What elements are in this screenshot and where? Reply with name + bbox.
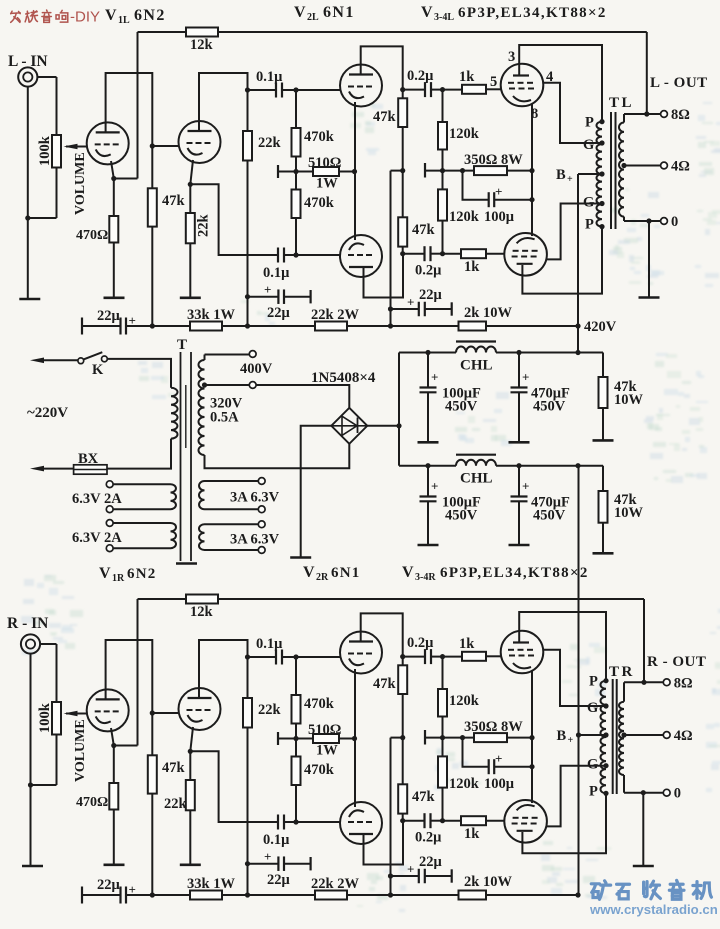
label R-IN: [7, 615, 48, 632]
triode V1Rb: [179, 688, 221, 730]
ground secondary R: [633, 865, 654, 868]
wire plate lower to P R: [522, 793, 606, 853]
svg-text:100μ: 100μ: [484, 209, 515, 225]
transformer T filament 3A 6.3V #2: [199, 521, 280, 554]
wire input ground line R: [28, 654, 57, 866]
capacitor 0.1u upper L: [248, 69, 341, 98]
svg-text:120k: 120k: [449, 693, 480, 709]
resistor 22k plate load R: [243, 657, 282, 898]
svg-text:3-4R: 3-4R: [415, 572, 436, 583]
capacitor 0.1u lower L: [263, 248, 341, 282]
svg-text:B: B: [556, 167, 566, 183]
label TL: [609, 95, 634, 111]
terminal 8ohm L: [661, 107, 690, 123]
svg-text:100k: 100k: [37, 702, 53, 733]
wire bus segment 1 R: [126, 894, 190, 896]
wire plate top to P L: [519, 45, 602, 122]
svg-text:33k 1W: 33k 1W: [187, 876, 235, 892]
wire screen upper to G L: [543, 83, 602, 143]
svg-text:P: P: [589, 674, 598, 690]
wire 400V tap: [205, 355, 250, 356]
label P bottom R: [589, 783, 598, 799]
svg-text:6.3V 2A: 6.3V 2A: [72, 530, 122, 546]
transformer T HV secondary: [199, 356, 208, 466]
wire filter output: [425, 463, 603, 468]
svg-text:0.2μ: 0.2μ: [415, 263, 442, 279]
svg-text:6P3P,EL34,KT88×2: 6P3P,EL34,KT88×2: [440, 565, 589, 581]
ground input R: [22, 865, 43, 868]
svg-text:470k: 470k: [304, 762, 335, 778]
wire filter input: [399, 352, 456, 354]
ground 470ohm L: [104, 296, 125, 299]
wire plate lower to P L: [522, 227, 602, 294]
watermark url: [589, 902, 718, 917]
capacitor 22u mid R: [248, 849, 311, 888]
svg-text:22k: 22k: [164, 796, 188, 812]
svg-text:+: +: [407, 862, 414, 877]
transformer T filament 6.3V 2A #1: [72, 481, 176, 513]
wire feedback drop R: [643, 599, 645, 682]
svg-text:22μ: 22μ: [419, 287, 443, 303]
resistor 120k upper L: [438, 90, 480, 174]
potentiometer 100k VOLUME L: [37, 77, 88, 218]
wire to bridge AC1: [256, 385, 349, 408]
ground 22k R: [180, 863, 201, 866]
resistor 1k lower L: [443, 249, 505, 275]
choke CHL: [456, 342, 496, 374]
resistor 22k 2W R: [311, 876, 359, 900]
svg-text:6N1: 6N1: [323, 4, 355, 21]
capacitor 22u right R: [391, 854, 452, 883]
resistor 47k plate load V1 L: [148, 188, 186, 328]
svg-text:100k: 100k: [37, 135, 53, 166]
capacitor 100uF 450V: [420, 353, 481, 443]
svg-text:+: +: [495, 751, 502, 766]
svg-text:+: +: [264, 849, 271, 864]
label V1R 6N2: [99, 565, 156, 584]
svg-text:10W: 10W: [614, 392, 644, 408]
wire screen lower to G R: [547, 766, 606, 827]
svg-text:+: +: [495, 184, 502, 199]
wire HV bottom to bridge AC2: [205, 444, 350, 469]
svg-text:10W: 10W: [614, 505, 644, 521]
wire V2Rb cathode: [354, 739, 356, 808]
svg-text:47k: 47k: [162, 760, 186, 776]
svg-text:L - IN: L - IN: [8, 53, 48, 70]
input jack R: [21, 634, 57, 653]
svg-text:0: 0: [671, 214, 678, 230]
triode V1Ra: [87, 689, 129, 731]
terminal 0 R: [663, 786, 681, 802]
svg-text:22k: 22k: [258, 135, 282, 151]
svg-text:2R: 2R: [316, 572, 329, 583]
resistor 120k lower R: [438, 738, 480, 821]
wire cathode out to lower 0.1u L: [190, 184, 278, 255]
terminal 4ohm R: [663, 728, 692, 744]
label P top R: [589, 674, 598, 690]
resistor 22k cathode R: [164, 780, 195, 865]
svg-text:4Ω: 4Ω: [671, 159, 690, 175]
svg-text:+: +: [568, 735, 574, 746]
resistor 510ohm 1W R: [278, 722, 357, 759]
wire 320V tap to bridge: [205, 384, 250, 386]
wire V1Ra cathode R: [111, 728, 116, 783]
svg-text:6P3P,EL34,KT88×2: 6P3P,EL34,KT88×2: [458, 5, 607, 21]
choke CHL: [456, 455, 496, 487]
core TL: [611, 112, 616, 229]
svg-text:3A 6.3V: 3A 6.3V: [230, 532, 280, 548]
pin labels output tubes: [490, 49, 553, 122]
svg-text:1W: 1W: [316, 743, 338, 759]
wire secondary ground R: [642, 793, 644, 866]
capacitor 100uF 450V: [420, 466, 481, 545]
resistor 22k plate load L: [243, 90, 282, 329]
triode V1Lb: [179, 121, 221, 163]
svg-text:47k: 47k: [373, 676, 397, 692]
label V2L 6N1: [294, 4, 355, 23]
resistor 470ohm cathode L: [76, 216, 118, 298]
output transformer TL primary: [597, 119, 605, 229]
terminal 4ohm L: [661, 159, 690, 175]
rectifier bridge 1N5408x4: [311, 370, 376, 444]
pentode V3L upper output: [501, 64, 544, 107]
wire bus segment 3 R: [347, 894, 459, 896]
svg-text:350Ω 8W: 350Ω 8W: [464, 719, 523, 735]
wire screen lower to G L: [547, 204, 602, 260]
svg-text:G: G: [587, 757, 598, 773]
wire 8ohm tap L: [624, 111, 661, 116]
svg-text:2L: 2L: [307, 12, 319, 23]
svg-text:33k 1W: 33k 1W: [187, 307, 235, 323]
svg-text:120k: 120k: [449, 776, 480, 792]
wire 4ohm tap L: [621, 163, 660, 168]
svg-text:+: +: [407, 295, 414, 310]
label P top L: [585, 115, 594, 131]
resistor 47k driver upper L: [373, 90, 407, 174]
resistor 2k 10W L: [459, 305, 513, 331]
wire V2Ra plate: [361, 613, 406, 659]
svg-text:2k 10W: 2k 10W: [464, 874, 512, 890]
svg-text:1k: 1k: [464, 259, 480, 275]
label B+ L: [556, 167, 573, 185]
capacitor 470uF 450V: [511, 466, 570, 545]
svg-text:L - OUT: L - OUT: [650, 75, 708, 91]
label V1L 6N2: [105, 7, 166, 26]
wire V1Lb plate to 0.1u node: [199, 73, 250, 131]
ground 100uF: [418, 441, 439, 444]
svg-text:G: G: [583, 137, 594, 153]
output transformer TR primary: [600, 678, 608, 796]
transformer T filament 6.3V 2A #2: [72, 520, 176, 552]
ground input L: [19, 298, 40, 301]
triode V2Rb: [340, 802, 382, 844]
resistor 22k cathode L: [186, 213, 212, 298]
svg-text:1k: 1k: [464, 826, 480, 842]
svg-text:V: V: [402, 564, 414, 581]
terminal 0 L: [661, 214, 679, 230]
fuse BX: [74, 451, 107, 474]
terminal 8ohm R: [663, 675, 692, 691]
svg-text:3A 6.3V: 3A 6.3V: [230, 490, 280, 506]
transformer T primary: [171, 388, 178, 439]
wire bus segment 3 L: [347, 325, 459, 327]
svg-text:V: V: [303, 564, 315, 581]
svg-text:P: P: [589, 783, 598, 799]
wire cathode column output tubes R: [531, 671, 533, 803]
wire input ground line L: [25, 87, 56, 299]
wire fuse to mains neutral: [30, 466, 74, 472]
wire V2Lb cathode: [354, 172, 356, 241]
svg-text:0.1μ: 0.1μ: [256, 69, 283, 85]
svg-text:~220V: ~220V: [27, 405, 68, 421]
input jack L: [18, 67, 56, 86]
pentode V4R lower output: [504, 800, 547, 843]
svg-text:0: 0: [674, 786, 681, 802]
ground 47k 10W: [593, 552, 614, 555]
label B+ R: [557, 728, 574, 746]
svg-text:T: T: [177, 337, 187, 353]
wire 4ohm tap R: [621, 732, 663, 737]
triode V2Ra: [340, 632, 382, 674]
svg-text:+: +: [522, 370, 529, 385]
svg-text:100μ: 100μ: [484, 776, 515, 792]
wire V2Ra cathode: [354, 669, 356, 739]
wire V1Rb cathode R: [188, 727, 193, 780]
wire 0ohm tap R: [624, 790, 663, 795]
resistor 120k lower L: [438, 171, 480, 254]
switch K: [78, 352, 107, 378]
resistor 33k 1W L: [187, 307, 235, 331]
capacitor 0.2u upper R: [403, 635, 445, 664]
svg-text:22μ: 22μ: [97, 877, 121, 893]
resistor 22k 2W L: [311, 307, 359, 331]
svg-text:0.5A: 0.5A: [210, 410, 239, 426]
ground 470uF: [509, 544, 530, 547]
capacitor 22u bus left L: [82, 308, 136, 335]
resistor 510ohm 1W L: [278, 155, 357, 192]
svg-text:V: V: [294, 4, 306, 21]
resistor 470k upper R: [292, 657, 335, 741]
svg-text:R - IN: R - IN: [7, 615, 48, 632]
svg-text:22μ: 22μ: [267, 305, 291, 321]
svg-text:V: V: [99, 565, 111, 582]
svg-text:V: V: [421, 4, 433, 21]
svg-text:CHL: CHL: [460, 358, 493, 374]
svg-text:0.1μ: 0.1μ: [263, 265, 290, 281]
svg-text:0.2μ: 0.2μ: [407, 635, 434, 651]
terminal 400V: [240, 351, 273, 377]
wire B+ to lower channel: [576, 466, 581, 895]
resistor 12k L: [186, 28, 218, 54]
svg-text:TR: TR: [609, 664, 635, 680]
svg-text:0.1μ: 0.1μ: [263, 832, 290, 848]
label V3-4R tube types: [402, 564, 589, 583]
label G top L: [583, 137, 594, 153]
svg-text:2k 10W: 2k 10W: [464, 305, 512, 321]
svg-text:470k: 470k: [304, 195, 335, 211]
svg-text:4Ω: 4Ω: [674, 728, 693, 744]
svg-text:8: 8: [531, 106, 538, 122]
svg-text:47k: 47k: [162, 193, 186, 209]
label 320V 0.5A: [210, 396, 243, 426]
ground secondary L: [639, 296, 660, 299]
wire bus segment 2 L: [222, 325, 315, 327]
capacitor 0.2u lower L: [403, 246, 445, 278]
svg-text:450V: 450V: [533, 399, 566, 415]
wire filter output: [425, 350, 603, 355]
svg-text:120k: 120k: [449, 126, 480, 142]
svg-text:P: P: [585, 115, 594, 131]
svg-text:P: P: [585, 217, 594, 233]
svg-text:TL: TL: [609, 95, 634, 111]
triode V1La: [87, 122, 129, 164]
svg-text:470Ω: 470Ω: [76, 228, 108, 243]
svg-text:47k: 47k: [412, 222, 436, 238]
svg-text:K: K: [92, 362, 104, 378]
svg-text:8Ω: 8Ω: [674, 675, 693, 691]
wire bus segment 4 L: [486, 323, 581, 328]
label G bottom L: [583, 195, 594, 211]
label ~220V: [27, 405, 68, 421]
svg-text:V: V: [105, 7, 117, 24]
label TR: [609, 664, 635, 680]
resistor 47k driver lower L: [398, 171, 435, 257]
svg-text:22μ: 22μ: [267, 872, 291, 888]
svg-text:22μ: 22μ: [419, 854, 443, 870]
potentiometer 100k VOLUME R: [37, 644, 88, 785]
wire screen upper to G R: [543, 650, 606, 706]
svg-text:12k: 12k: [190, 604, 214, 620]
capacitor 22u right L: [391, 287, 452, 316]
svg-text:510Ω: 510Ω: [308, 722, 341, 738]
svg-text:420V: 420V: [584, 319, 617, 335]
resistor 12k R: [186, 595, 218, 621]
resistor 470k lower R: [292, 739, 335, 825]
svg-text:1R: 1R: [112, 573, 125, 584]
label R - OUT: [647, 654, 706, 670]
wire bus segment 2 R: [222, 894, 315, 896]
capacitor 0.2u lower R: [403, 813, 445, 845]
svg-text:22μ: 22μ: [97, 308, 121, 324]
wire B+ feed L: [578, 174, 602, 326]
svg-text:G: G: [583, 195, 594, 211]
wire V2La plate: [361, 46, 406, 92]
label P bottom L: [585, 217, 594, 233]
resistor 350ohm 8W L: [425, 152, 535, 178]
svg-text:+: +: [264, 282, 271, 297]
svg-text:1L: 1L: [118, 15, 130, 26]
wire V1La plate to 47k L: [106, 73, 179, 188]
svg-text:VOLUME: VOLUME: [73, 719, 88, 782]
wire bridge minus to ground: [301, 426, 332, 557]
svg-text:470Ω: 470Ω: [76, 795, 108, 810]
wire switch to primary: [107, 359, 171, 388]
terminal 320V: [249, 382, 256, 389]
svg-text:450V: 450V: [445, 508, 478, 524]
ground 100uF: [418, 544, 439, 547]
label V3-4L tube types: [421, 4, 607, 23]
wire V2Lb plate U-path: [364, 254, 404, 298]
label L - OUT: [650, 75, 708, 91]
wire V1Rb plate to 0.1u node: [199, 640, 250, 698]
svg-text:0.2μ: 0.2μ: [407, 68, 434, 84]
svg-text:+: +: [431, 370, 438, 385]
svg-text:450V: 450V: [533, 508, 566, 524]
svg-text:400V: 400V: [240, 361, 273, 377]
svg-text:VOLUME: VOLUME: [73, 152, 88, 215]
resistor 470k upper L: [292, 90, 335, 174]
resistor 47k 10W bleeder: [599, 353, 644, 441]
label V2R 6N1: [303, 564, 360, 583]
wire secondary ground L: [648, 221, 650, 298]
wire bridge plus to rail: [367, 423, 401, 428]
ground 47k 10W: [593, 439, 614, 442]
svg-text:470k: 470k: [304, 696, 335, 712]
triode V2Lb: [340, 235, 382, 277]
svg-text:+: +: [567, 174, 573, 185]
resistor 33k 1W R: [187, 876, 235, 900]
resistor 1k upper L: [443, 69, 502, 94]
wire filter rail: [398, 353, 400, 466]
svg-text:22k: 22k: [196, 214, 212, 238]
resistor 350ohm 8W R: [425, 719, 535, 745]
svg-text:0.2μ: 0.2μ: [415, 830, 442, 846]
resistor 1k lower R: [443, 816, 505, 842]
svg-text:22k 2W: 22k 2W: [311, 307, 359, 323]
svg-text:1N5408×4: 1N5408×4: [311, 370, 376, 386]
wire 0ohm tap L: [624, 218, 661, 223]
wire filter input: [399, 465, 456, 467]
svg-text:22k 2W: 22k 2W: [311, 876, 359, 892]
wire V1La cathode L: [111, 161, 116, 216]
transformer T core: [176, 352, 197, 564]
resistor 470k lower L: [292, 172, 335, 258]
wire bus segment 4 R: [486, 892, 581, 897]
title 发烧音响-DIY: [11, 9, 100, 26]
wire feedback line L: [114, 32, 647, 179]
svg-text:B: B: [557, 728, 567, 744]
output transformer TL secondary: [619, 114, 624, 221]
svg-text:BX: BX: [78, 451, 99, 467]
svg-text:5: 5: [490, 74, 497, 90]
pentode V4L lower output: [504, 233, 547, 276]
resistor 120k upper R: [438, 657, 480, 741]
svg-text:1W: 1W: [316, 176, 338, 192]
svg-text:12k: 12k: [190, 37, 214, 53]
svg-text:-DIY: -DIY: [70, 9, 100, 26]
capacitor 0.1u upper R: [248, 636, 341, 665]
svg-text:470k: 470k: [304, 129, 335, 145]
svg-text:510Ω: 510Ω: [308, 155, 341, 171]
svg-text:+: +: [522, 479, 529, 494]
resistor 47k driver upper R: [373, 657, 407, 741]
capacitor 0.2u upper L: [403, 68, 445, 97]
svg-text:3-4L: 3-4L: [434, 12, 454, 23]
wire V1Ra plate to 47k R: [106, 640, 179, 755]
svg-text:6N2: 6N2: [127, 566, 156, 582]
ground 22k L: [180, 296, 201, 299]
svg-text:1k: 1k: [459, 69, 475, 85]
label T: [177, 337, 187, 353]
resistor 1k upper R: [443, 636, 502, 661]
svg-text:47k: 47k: [373, 109, 397, 125]
core TR: [613, 679, 617, 794]
wire plate top to P R: [519, 612, 606, 681]
capacitor 0.1u lower R: [263, 815, 341, 849]
wire 8ohm tap R: [624, 680, 663, 685]
ground 470uF: [509, 441, 530, 444]
wire B feed branch R: [388, 738, 403, 898]
